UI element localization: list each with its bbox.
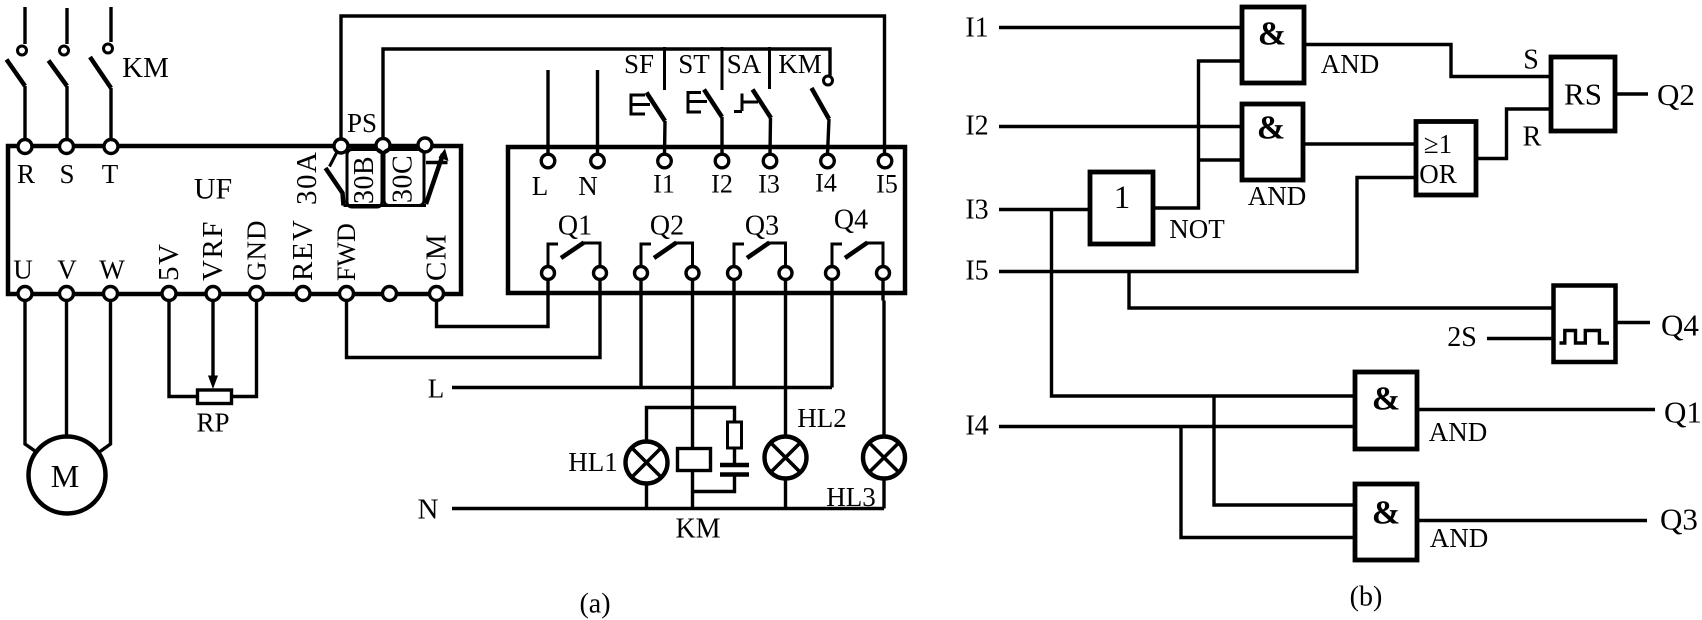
svg-text:REV: REV — [287, 219, 319, 282]
L line — [452, 386, 832, 389]
svg-text:R: R — [1523, 122, 1542, 153]
terminal U — [18, 287, 32, 301]
svg-text:HL1: HL1 — [568, 447, 618, 477]
svg-text:I4: I4 — [965, 411, 988, 442]
wire Q3 right to HL2 — [784, 301, 787, 437]
svg-text:≥1: ≥1 — [1424, 129, 1452, 159]
wire U to motor — [25, 301, 45, 459]
svg-text:Q1: Q1 — [1664, 395, 1702, 430]
relay contact Q4 — [826, 243, 890, 301]
wire Q2 right to KM coil — [691, 301, 694, 449]
label frame 30C — [384, 150, 424, 206]
motor M — [29, 437, 106, 514]
svg-text:I1: I1 — [653, 170, 675, 199]
svg-text:I3: I3 — [758, 170, 780, 199]
svg-text:Q4: Q4 — [834, 205, 868, 236]
contact 30A stub from terminal — [330, 152, 338, 167]
wire PS terminal up and over to I5 — [341, 16, 885, 154]
svg-text:Q2: Q2 — [1657, 77, 1695, 112]
terminal FWD — [340, 287, 354, 301]
terminal I2 — [715, 154, 729, 168]
wire I3 to NOT — [999, 208, 1089, 211]
wire R blade to terminal R — [23, 86, 26, 140]
svg-text:OR: OR — [1419, 159, 1457, 189]
switch KM pole S fixed contact hook — [60, 46, 69, 55]
svg-text:L: L — [532, 171, 549, 201]
switch KM pole T feed wire — [109, 7, 112, 42]
wire I5 branch to pulse generator — [1129, 272, 1553, 309]
svg-text:N: N — [418, 494, 439, 526]
svg-text:2S: 2S — [1447, 322, 1477, 353]
wire CM to Q1 left — [437, 301, 549, 327]
wire I3 branch down to AND3 upper input — [1052, 210, 1355, 397]
terminal spare — [383, 287, 397, 301]
snubber capacitor — [720, 465, 749, 475]
wire 2S to pulse generator — [1487, 337, 1553, 340]
selector SA actuator F — [734, 94, 758, 112]
svg-text:I2: I2 — [965, 111, 988, 142]
svg-text:W: W — [99, 255, 125, 285]
AND gate U3 box — [1355, 372, 1417, 449]
svg-text:I5: I5 — [876, 170, 898, 199]
terminal L — [541, 154, 555, 168]
wire VRF wiper arrow — [211, 301, 214, 379]
terminal CM — [430, 287, 444, 301]
terminal N — [591, 154, 605, 168]
svg-text:Q1: Q1 — [558, 211, 592, 242]
label frame 30B — [347, 150, 382, 208]
HL1 branch bracket — [647, 408, 735, 442]
wire Q4 left to L line — [830, 301, 833, 388]
switch KM pole S blade — [49, 61, 68, 87]
wire Q4 right to HL3 — [882, 301, 885, 437]
svg-text:GND: GND — [242, 220, 272, 282]
svg-text:AND: AND — [1429, 417, 1488, 447]
terminal W — [104, 287, 118, 301]
wire stub N supply — [596, 70, 599, 154]
pushbutton SF blade — [647, 93, 666, 122]
svg-text:RP: RP — [196, 408, 229, 438]
svg-text:T: T — [102, 159, 119, 189]
svg-text:30C: 30C — [388, 155, 419, 203]
snubber capacitor to bottom bracket — [693, 477, 735, 492]
svg-text:N: N — [578, 171, 598, 201]
svg-text:NOT: NOT — [1169, 214, 1225, 244]
svg-text:KM: KM — [675, 514, 720, 545]
wire SF blade to I1 — [663, 121, 667, 154]
svg-text:FWD: FWD — [332, 223, 361, 281]
wire 30A-30C bottom run — [344, 204, 427, 207]
wire I2 to AND2 — [999, 125, 1241, 128]
terminal I1 — [658, 154, 672, 168]
contact 30A blade — [326, 168, 344, 206]
snubber resistor — [728, 422, 742, 448]
svg-text:I5: I5 — [965, 256, 988, 287]
wire 30B terminal up and over to KM contact at I4 — [383, 49, 830, 140]
svg-text:L: L — [428, 374, 445, 404]
svg-text:&: & — [1257, 110, 1285, 147]
svg-text:UF: UF — [194, 173, 232, 206]
terminal 30B — [376, 139, 390, 153]
lamp HL2 — [765, 437, 807, 479]
wire stub ST from bus — [721, 47, 724, 90]
svg-text:SF: SF — [624, 49, 654, 79]
svg-text:AND: AND — [1321, 49, 1380, 79]
pushbutton ST blade — [704, 90, 722, 118]
svg-text:ST: ST — [678, 49, 710, 79]
wire I4 to AND3 lower input — [999, 425, 1354, 428]
svg-text:1: 1 — [1114, 180, 1131, 216]
terminal T — [104, 140, 118, 154]
potentiometer RP body — [198, 390, 232, 404]
wire KM coil to N line — [691, 471, 694, 509]
wire W to motor — [91, 301, 111, 459]
terminal 30C — [418, 138, 432, 152]
svg-text:Q3: Q3 — [1660, 502, 1698, 537]
wire T blade to terminal T — [109, 88, 112, 140]
wire stub SA from bus — [768, 47, 771, 89]
svg-text:(b): (b) — [1350, 582, 1383, 613]
svg-text:S: S — [59, 159, 74, 189]
svg-text:VRF: VRF — [197, 220, 229, 281]
relay contact Q1 — [542, 243, 607, 301]
switch KM pole S feed wire — [65, 8, 68, 44]
svg-text:R: R — [17, 159, 35, 189]
contact KM fixed hook — [824, 76, 833, 85]
wire HL1 to N — [645, 484, 648, 509]
svg-text:S: S — [1523, 45, 1539, 76]
svg-text:HL2: HL2 — [797, 403, 847, 433]
terminal V — [60, 287, 74, 301]
svg-text:KM: KM — [122, 52, 169, 84]
svg-text:V: V — [57, 255, 77, 285]
terminal 5V — [162, 287, 176, 301]
svg-text:KM: KM — [778, 49, 822, 79]
svg-text:30A: 30A — [291, 151, 323, 205]
wire V to motor — [65, 301, 68, 441]
terminal PS(30A) — [334, 139, 348, 153]
wire 5V to potentiometer — [169, 301, 198, 397]
svg-text:CM: CM — [421, 233, 453, 281]
wire HL2 to N — [784, 479, 787, 509]
wire AND3 output Q1 — [1417, 408, 1655, 411]
wire I4 branch to AND4 lower input — [1181, 427, 1354, 538]
wire RS output Q2 — [1615, 92, 1648, 95]
wire HL3 to N — [882, 479, 885, 509]
snubber resistor leads — [733, 448, 736, 463]
switch KM pole R blade — [7, 60, 26, 87]
wire NOT output to AND1/AND2 inputs — [1153, 61, 1241, 208]
wire I5 to OR lower input — [999, 178, 1415, 272]
AND gate U4 box — [1355, 484, 1417, 560]
switch KM pole R fixed contact hook — [18, 46, 27, 55]
N line — [452, 507, 884, 510]
wire OR output to RS reset — [1476, 109, 1550, 159]
svg-text:PS: PS — [347, 108, 377, 138]
svg-text:I1: I1 — [965, 13, 988, 44]
relay contact Q2 — [635, 243, 700, 301]
terminal I4 — [821, 154, 835, 168]
svg-text:(a): (a) — [579, 589, 610, 620]
terminal REV — [296, 287, 310, 301]
inverter UF box — [8, 146, 461, 294]
svg-text:HL3: HL3 — [826, 482, 876, 512]
svg-text:&: & — [1372, 381, 1400, 418]
switch KM pole R feed wire — [23, 7, 26, 44]
relay contact Q3 — [728, 243, 793, 301]
terminal R — [18, 140, 32, 154]
wire ST blade to I2 — [720, 117, 723, 154]
terminal I5 — [878, 154, 892, 168]
terminal GND — [250, 287, 264, 301]
wire AND4 output Q3 — [1417, 519, 1647, 522]
PLC box — [508, 147, 905, 293]
wire KM blade to I4 — [828, 119, 830, 154]
pushbutton SF actuator E — [631, 95, 650, 114]
svg-text:&: & — [1258, 16, 1286, 53]
selector SA blade — [753, 90, 772, 119]
AND gate U2 box — [1242, 104, 1303, 180]
wire S blade to terminal S — [65, 86, 68, 140]
wire branch to AND4 upper input — [1214, 396, 1354, 505]
svg-text:30B: 30B — [349, 156, 380, 204]
svg-text:I3: I3 — [965, 195, 988, 226]
relay coil KM — [678, 449, 711, 471]
svg-text:M: M — [51, 458, 79, 494]
wire GND to potentiometer — [232, 301, 257, 397]
svg-text:Q4: Q4 — [1661, 308, 1699, 343]
svg-text:AND: AND — [1430, 523, 1489, 553]
OR gate box — [1416, 122, 1476, 196]
contact 30C blade with arrow — [426, 154, 443, 204]
lamp HL1 — [626, 442, 668, 484]
lamp HL3 — [863, 437, 905, 479]
AND gate U1 box — [1242, 7, 1304, 83]
pulse waveform glyph — [1560, 331, 1610, 344]
pulse generator box — [1554, 286, 1616, 363]
switch KM pole T blade — [90, 57, 111, 88]
wire Q3 left to L line — [732, 301, 735, 388]
svg-text:&: & — [1372, 495, 1400, 532]
svg-text:SA: SA — [727, 49, 762, 79]
terminal S — [60, 140, 74, 154]
pushbutton ST actuator E — [688, 93, 707, 113]
wire stub L supply — [546, 70, 549, 154]
wire FWD to Q1 right — [347, 301, 601, 358]
svg-text:Q2: Q2 — [650, 211, 684, 242]
svg-text:U: U — [13, 255, 33, 285]
svg-text:RS: RS — [1564, 77, 1602, 112]
svg-text:AND: AND — [1248, 181, 1307, 211]
wire pulse output Q4 — [1616, 321, 1650, 324]
svg-text:I4: I4 — [815, 169, 837, 198]
NOT gate box — [1090, 172, 1153, 244]
wire stub SF from bus — [663, 47, 666, 90]
terminal VRF — [206, 287, 220, 301]
RS flip-flop box — [1551, 57, 1615, 131]
switch KM pole T fixed contact hook — [104, 44, 113, 53]
wire SA blade to I3 — [768, 118, 772, 154]
contact KM blade — [812, 88, 830, 119]
terminal I3 — [763, 154, 777, 168]
wire I1 to AND1 — [999, 26, 1241, 29]
svg-text:I2: I2 — [711, 170, 733, 199]
wire AND2 output to OR input — [1303, 142, 1415, 145]
wire AND1 output to RS set — [1304, 45, 1550, 77]
wire Q2 left to L line — [639, 301, 642, 388]
svg-text:5V: 5V — [153, 243, 185, 281]
svg-text:Q3: Q3 — [745, 211, 779, 242]
